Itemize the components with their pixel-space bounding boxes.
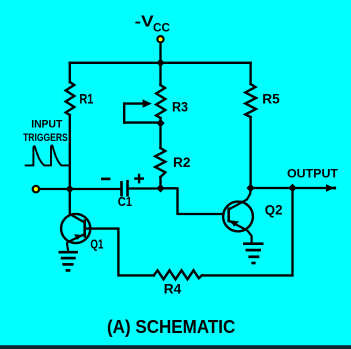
svg-text:TRIGGERS: TRIGGERS <box>23 132 68 144</box>
wire: R4 right riser to output node <box>202 188 293 275</box>
wire: Q1 base to R4 <box>85 229 154 276</box>
wire: junction to R2 top <box>159 123 161 148</box>
capacitor polarity minus <box>101 178 110 181</box>
svg-text:Q1: Q1 <box>90 237 103 252</box>
node junction dot (R3 bottom) <box>156 119 164 127</box>
svg-text:CC: CC <box>153 23 170 35</box>
R3 wiper arrowhead <box>143 99 152 107</box>
wire: right branch rail to R5 <box>249 63 251 84</box>
resistor R3 <box>156 85 165 118</box>
svg-text:(A) SCHEMATIC: (A) SCHEMATIC <box>107 317 235 337</box>
wire: R2 bottom lead <box>159 177 161 188</box>
svg-text:R5: R5 <box>262 91 280 107</box>
resistor R2 <box>155 148 165 177</box>
svg-text:R1: R1 <box>79 91 93 107</box>
wire: junction to Q2 base step <box>161 188 224 214</box>
wire: C1 to R2 junction <box>129 187 161 189</box>
wire: -Vcc terminal to top rail <box>159 43 161 63</box>
wire: wiper loop left vertical <box>123 104 125 123</box>
capacitor C1 left plate <box>120 182 123 195</box>
node junction dot (R4/output) <box>288 184 296 192</box>
capacitor polarity plus <box>134 174 144 184</box>
wire: top rail <box>70 62 251 64</box>
svg-text:R2: R2 <box>173 154 191 170</box>
wire: R3 bottom lead to junction <box>159 118 161 123</box>
node junction dot (input) <box>66 185 74 193</box>
wire: wiper loop bottom to R3 bottom junction <box>124 121 160 123</box>
resistor R1 <box>66 82 75 115</box>
transistor Q1 <box>61 214 90 251</box>
svg-text:Q2: Q2 <box>265 203 283 218</box>
output arrowhead <box>326 184 335 191</box>
wire: input terminal to C1 <box>39 188 120 190</box>
transistor Q2 <box>223 188 253 243</box>
capacitor C1 right plate <box>126 181 129 195</box>
ground (Q1 emitter) <box>59 252 79 270</box>
output wire <box>251 187 327 189</box>
wire: R5 bottom to output node <box>249 117 251 188</box>
wire: left branch top lead to R1 <box>69 63 71 82</box>
input trigger waveform <box>25 145 71 165</box>
resistor R4 <box>154 270 202 279</box>
svg-text:INPUT: INPUT <box>31 119 62 131</box>
svg-text:R4: R4 <box>164 281 182 297</box>
svg-text:-V: -V <box>135 13 154 30</box>
bottom dark edge strip <box>0 345 351 349</box>
input terminal <box>33 186 39 192</box>
svg-text:R3: R3 <box>172 99 188 114</box>
resistor R5 <box>245 84 256 117</box>
svg-text:OUTPUT: OUTPUT <box>287 167 339 181</box>
node junction dot (rail/middle) <box>156 59 164 67</box>
wire: middle branch rail to R3 <box>159 63 161 85</box>
R3 wiper arrow line <box>124 102 145 104</box>
ground (Q2 emitter) <box>243 244 264 263</box>
-Vcc terminal <box>157 36 163 42</box>
wire: R1 bottom to Q1 collector <box>69 115 71 215</box>
svg-text:C1: C1 <box>118 195 132 209</box>
node junction dot (C1/R2) <box>156 184 164 192</box>
node junction dot (R5/output) <box>246 184 254 192</box>
